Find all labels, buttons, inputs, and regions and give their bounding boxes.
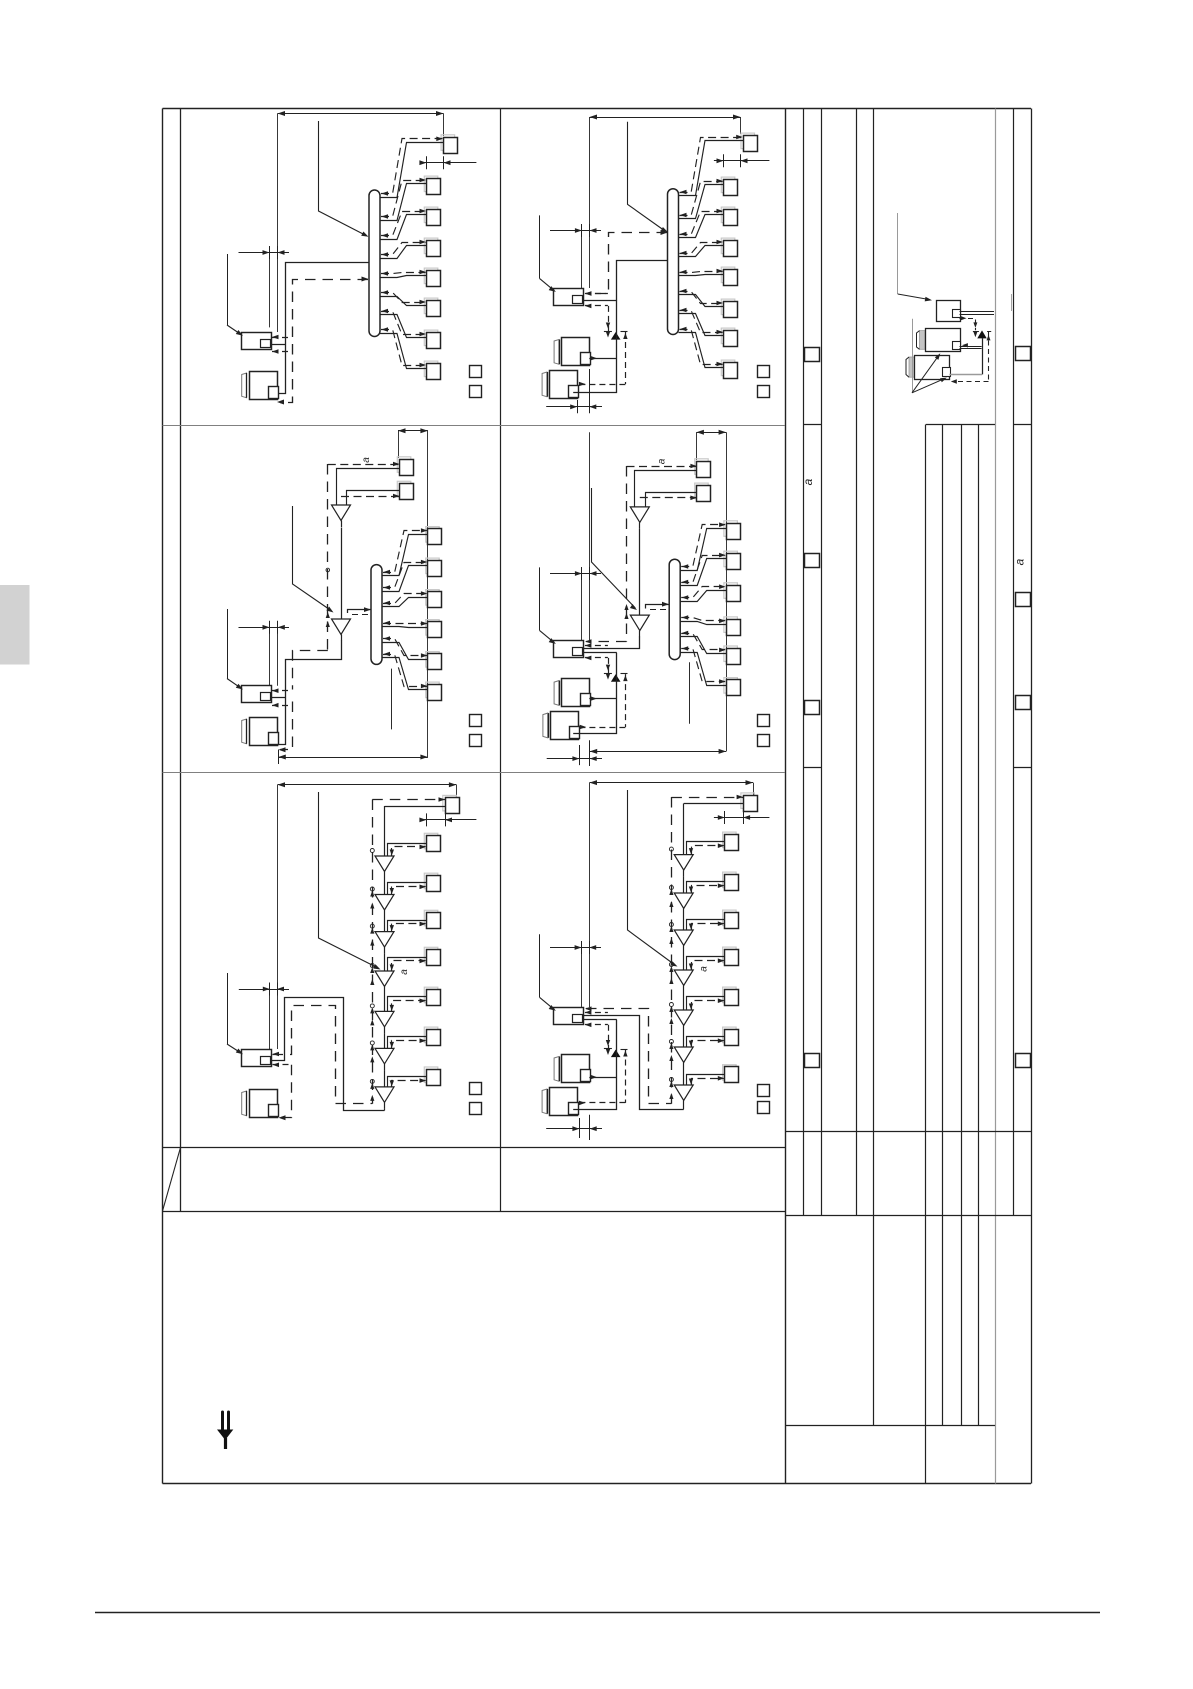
indoor unit D8 bbox=[724, 678, 741, 696]
outdoor unit C bbox=[242, 718, 279, 746]
functional unit B stubs bbox=[585, 291, 608, 308]
refnet joint F5 bbox=[674, 1010, 693, 1032]
indoor unit D3 bbox=[724, 521, 741, 540]
indoor unit A7 bbox=[424, 330, 440, 348]
panel C top dimension bbox=[398, 428, 428, 757]
svg-text:a: a bbox=[361, 457, 372, 463]
header leader C bbox=[391, 669, 393, 730]
panel E leader to joint bbox=[319, 792, 381, 970]
leader to functional unit B bbox=[540, 215, 556, 292]
functional unit D stubs bbox=[585, 643, 608, 660]
indoor unit F3 bbox=[723, 872, 739, 890]
indoor unit B5 bbox=[721, 267, 737, 285]
table checkboxes bbox=[805, 347, 1031, 1068]
panel E small dimension bbox=[419, 813, 476, 826]
refnet joint F1 bbox=[674, 855, 693, 877]
leader to functional unit F bbox=[540, 934, 556, 1011]
leader to joint C bbox=[293, 506, 334, 613]
branch piping A unit1 bbox=[380, 137, 443, 198]
indoor unit E7 bbox=[424, 1027, 440, 1045]
indoor unit B6 bbox=[721, 299, 737, 317]
liquid main D bbox=[583, 637, 640, 649]
liquid main E bbox=[271, 998, 385, 1111]
panel E checkboxes bbox=[470, 1083, 482, 1115]
indoor unit D4 bbox=[724, 551, 741, 569]
branch piping C header units bbox=[382, 528, 428, 689]
panel F checkboxes bbox=[758, 1085, 770, 1114]
panel A top dimension bbox=[278, 111, 444, 332]
functional unit D bbox=[554, 641, 584, 658]
gas riser F bbox=[669, 795, 743, 1104]
refnet joint F7 bbox=[674, 1085, 693, 1107]
panel B top dimension bbox=[590, 115, 741, 289]
leader to functional unit A bbox=[227, 254, 243, 336]
branch piping A units2-8 bbox=[380, 178, 427, 369]
rotated letter E bbox=[399, 969, 410, 975]
indoor unit A1 bbox=[441, 135, 457, 154]
leader to joint D bbox=[592, 488, 638, 610]
panel B small dimension bbox=[714, 154, 770, 167]
joint cluster piping F bbox=[573, 1020, 627, 1110]
branch piping D header units bbox=[680, 522, 726, 685]
mini outdoor master bbox=[917, 329, 961, 352]
functional unit C bbox=[242, 686, 272, 703]
rotated letter D bbox=[657, 458, 668, 464]
indoor unit D2 bbox=[695, 483, 711, 501]
panel D checkboxes bbox=[758, 715, 770, 747]
panel A small dimension bbox=[419, 156, 476, 169]
joint feed D bbox=[583, 652, 617, 654]
branch piping D units bbox=[627, 464, 697, 507]
refrigerant header B bbox=[668, 189, 679, 335]
refnet joint E4 bbox=[375, 971, 394, 993]
gas drop E bbox=[273, 1063, 292, 1121]
branch piping B units2-8 bbox=[679, 179, 724, 368]
outdoor branch joint B bbox=[611, 332, 621, 340]
refrigerant header A bbox=[369, 190, 380, 337]
functional unit F bbox=[554, 1008, 584, 1025]
panel D bottom dimension bbox=[590, 749, 726, 754]
dimension at outdoor C bbox=[239, 621, 290, 686]
functional unit A stubs bbox=[270, 335, 292, 354]
header leader D bbox=[689, 662, 691, 724]
gas main D bbox=[585, 639, 627, 644]
liquid trunk chain F bbox=[684, 804, 744, 1110]
mini functional unit bbox=[937, 301, 961, 322]
dimension bottom B bbox=[546, 369, 602, 413]
panel E top dimension bbox=[278, 782, 457, 1049]
indoor unit C7 bbox=[426, 652, 442, 670]
mini outdoor slave bbox=[906, 356, 951, 380]
gas riser D bbox=[624, 466, 628, 642]
power plug symbol bbox=[217, 1412, 233, 1449]
indoor unit E3 bbox=[424, 873, 440, 891]
svg-text:a: a bbox=[699, 966, 710, 972]
mini piping dashed bbox=[951, 316, 991, 384]
leader to functional unit E bbox=[227, 973, 243, 1054]
gas riser C bbox=[326, 464, 330, 651]
drawing frame and panel grid bbox=[163, 109, 1032, 1484]
indoor unit F2 bbox=[723, 832, 739, 850]
dimension left D bbox=[550, 432, 601, 640]
dimension at outdoor E bbox=[239, 983, 289, 1050]
indoor unit C1 bbox=[397, 457, 413, 476]
dimension left B bbox=[550, 224, 601, 288]
functional unit C stubs bbox=[270, 688, 292, 707]
mini leader bbox=[898, 213, 933, 301]
refrigerant header D bbox=[669, 559, 680, 659]
liquid trunk chain E bbox=[385, 806, 446, 1111]
joint feed F bbox=[583, 1019, 617, 1021]
indoor unit B1 bbox=[741, 133, 758, 151]
joint cluster piping B bbox=[573, 301, 627, 393]
indoor unit D7 bbox=[724, 646, 741, 665]
footer rule bbox=[95, 1612, 1100, 1614]
outdoor unit D slave bbox=[543, 712, 580, 740]
indoor unit F8 bbox=[723, 1065, 739, 1083]
leader to functional unit D bbox=[540, 567, 556, 644]
branch piping E units bbox=[370, 844, 426, 1087]
outdoor unit F slave bbox=[542, 1088, 578, 1116]
panel C bottom dimension bbox=[278, 750, 428, 765]
refnet joint F2 bbox=[674, 893, 693, 915]
indoor unit A5 bbox=[424, 268, 440, 286]
indoor unit E1 bbox=[443, 795, 460, 813]
indoor unit B3 bbox=[721, 207, 737, 225]
panel B leader to header bbox=[628, 122, 669, 233]
header feed C bbox=[348, 607, 372, 614]
gas main C bbox=[293, 651, 328, 690]
refnet joint F3 bbox=[674, 930, 693, 952]
svg-text:a: a bbox=[801, 478, 815, 485]
functional unit E bbox=[242, 1050, 272, 1067]
refnet joint E7 bbox=[375, 1087, 394, 1109]
refnet joint D2 bbox=[630, 615, 649, 637]
indoor unit F6 bbox=[723, 987, 739, 1005]
scan punch-hole shadow bbox=[0, 585, 30, 665]
functional unit B bbox=[554, 289, 584, 306]
indoor unit E8 bbox=[424, 1067, 440, 1086]
outdoor branch joint D bbox=[611, 674, 621, 682]
indoor unit F5 bbox=[723, 947, 739, 965]
indoor unit A6 bbox=[424, 298, 440, 316]
liquid main F bbox=[583, 1016, 684, 1110]
joint cluster piping D bbox=[573, 653, 627, 734]
indoor unit E2 bbox=[424, 833, 440, 851]
indoor unit A4 bbox=[424, 238, 440, 256]
refnet joint C1 bbox=[332, 505, 351, 527]
dimension bottom D bbox=[547, 740, 602, 766]
refnet joint C2 bbox=[332, 619, 351, 641]
refnet joint E2 bbox=[375, 895, 394, 917]
outdoor unit D master bbox=[554, 679, 590, 707]
panel B checkboxes bbox=[758, 366, 770, 398]
gas main E bbox=[273, 1006, 373, 1104]
svg-text:a: a bbox=[399, 969, 410, 975]
trunk joints C bbox=[341, 528, 343, 620]
outdoor unit A bbox=[242, 372, 279, 400]
gas main B bbox=[585, 230, 668, 296]
refnet joint E3 bbox=[375, 932, 394, 954]
liquid main B bbox=[583, 261, 668, 302]
indoor unit B7 bbox=[721, 328, 737, 346]
indoor unit E6 bbox=[424, 987, 440, 1005]
dimension at outdoor A bbox=[239, 246, 290, 327]
refnet joint D1 bbox=[630, 507, 649, 529]
svg-text:a: a bbox=[657, 458, 668, 464]
indoor unit A2 bbox=[424, 176, 440, 194]
indoor unit C3 bbox=[426, 527, 442, 545]
indoor unit B4 bbox=[721, 238, 737, 256]
indoor unit B2 bbox=[721, 177, 737, 195]
gas main F bbox=[585, 1006, 671, 1103]
indoor unit F1 bbox=[741, 793, 758, 812]
refnet joint E5 bbox=[375, 1011, 394, 1033]
refnet joint F6 bbox=[674, 1047, 693, 1069]
indoor unit C8 bbox=[426, 682, 442, 700]
trunk joints D bbox=[639, 529, 641, 615]
branch piping C units bbox=[328, 462, 400, 505]
refnet joint F4 bbox=[674, 970, 693, 992]
liquid main C bbox=[278, 641, 342, 745]
outdoor unit B master bbox=[554, 338, 590, 366]
svg-text:a: a bbox=[1013, 558, 1027, 565]
rotated letter C bbox=[361, 457, 372, 463]
outdoor unit B slave bbox=[542, 371, 578, 399]
rotated letter F bbox=[699, 966, 710, 972]
outdoor unit E bbox=[242, 1090, 279, 1118]
indoor unit C2 bbox=[397, 481, 413, 499]
mini outdoor joint bbox=[977, 330, 987, 338]
panel F top dimension bbox=[590, 780, 754, 1007]
indoor unit C4 bbox=[426, 558, 442, 576]
indoor unit F4 bbox=[723, 910, 739, 928]
indoor unit A8 bbox=[424, 361, 440, 379]
branch piping F units bbox=[669, 842, 724, 1086]
right-hand rotated table grid bbox=[785, 109, 1032, 1484]
mini leader pair bbox=[912, 319, 947, 393]
indoor unit E5 bbox=[424, 947, 440, 965]
gas drop C bbox=[279, 702, 293, 753]
panel D top dimension bbox=[696, 430, 726, 752]
panel F leader to joint bbox=[628, 790, 678, 967]
dimension bottom F bbox=[546, 1115, 602, 1140]
panel A checkboxes bbox=[470, 366, 482, 398]
indoor unit C5 bbox=[426, 590, 442, 608]
panel C checkboxes bbox=[470, 715, 482, 747]
outdoor branch joint F bbox=[611, 1050, 621, 1058]
rotated letter in table col 2 bbox=[1013, 558, 1027, 565]
panel A leader to header bbox=[319, 121, 369, 237]
dimension left F bbox=[550, 941, 601, 1007]
refrigerant header C bbox=[371, 565, 382, 665]
functional unit F stubs bbox=[585, 1010, 608, 1027]
indoor unit B8 bbox=[721, 360, 737, 378]
rotated letter in table col 1 bbox=[801, 478, 815, 485]
indoor unit C6 bbox=[426, 620, 442, 638]
gas main A bbox=[277, 277, 369, 405]
refnet joint E6 bbox=[375, 1048, 394, 1070]
outdoor unit F master bbox=[554, 1055, 590, 1083]
header feed D bbox=[646, 602, 670, 610]
indoor unit D5 bbox=[724, 583, 741, 602]
mini piping solid bbox=[949, 294, 1011, 375]
indoor unit D6 bbox=[724, 617, 741, 636]
indoor unit E4 bbox=[424, 910, 440, 928]
indoor unit D1 bbox=[695, 459, 711, 478]
liquid main A bbox=[278, 263, 370, 394]
refnet joint E1 bbox=[375, 856, 394, 878]
panel F small dimension bbox=[714, 811, 770, 824]
indoor unit F7 bbox=[723, 1027, 739, 1045]
gas riser E bbox=[370, 797, 445, 1104]
indoor unit A3 bbox=[424, 207, 440, 225]
leader to functional unit C bbox=[227, 609, 243, 690]
functional unit A bbox=[242, 333, 272, 350]
branch piping B unit1 bbox=[679, 135, 744, 196]
